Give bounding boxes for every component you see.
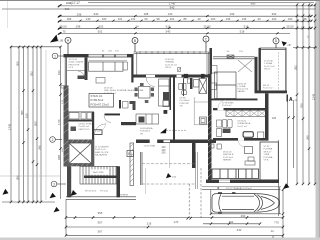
top dim line 2: [58, 5, 316, 7]
svg-text:1745: 1745: [7, 123, 11, 130]
svg-text:SP.OS 92.5: SP.OS 92.5: [85, 191, 97, 193]
svg-text:302: 302: [65, 7, 70, 11]
svg-text:NA ZAVRŠN: NA ZAVRŠN: [95, 154, 108, 157]
svg-text:06 05.06: 06 05.06: [104, 88, 113, 90]
svg-text:1:0B: 1:0B: [58, 40, 63, 43]
svg-text:10 01.06: 10 01.06: [69, 59, 78, 61]
svg-text:40: 40: [197, 17, 201, 21]
terrace edge below: [202, 186, 281, 188]
svg-text:25,50: 25,50: [204, 24, 211, 28]
dashed eave line lower: [142, 183, 196, 185]
ceiling diagonals bedroom: [238, 60, 252, 72]
terrace wall door gap1: [146, 75, 155, 78]
svg-text:60: 60: [144, 17, 148, 21]
radiator rects party wall: [217, 120, 222, 127]
main interior wall horizontal: [136, 140, 216, 144]
svg-text:180: 180: [272, 117, 277, 120]
east wall upper: [265, 93, 269, 140]
scan border top line: [0, 0, 320, 1]
svg-text:199: 199: [230, 12, 235, 16]
bed: [215, 72, 237, 99]
dashed line in top-right room: [278, 52, 280, 90]
svg-text:300: 300: [15, 175, 19, 180]
dining table on terrace: [139, 87, 151, 99]
top dim numbers row1: [65, 7, 277, 16]
stair text: [90, 169, 109, 174]
left band rotated numbers: [7, 61, 61, 180]
svg-text:P=9.08m2: P=9.08m2: [140, 131, 151, 133]
svg-text:940: 940: [170, 5, 175, 9]
sink counter dark outline: [243, 132, 253, 137]
bathtub: [69, 113, 79, 120]
left wall tiny texts: [62, 99, 64, 152]
door gap2 in wall: [164, 140, 171, 142]
svg-text:01 STUBIŠTE: 01 STUBIŠTE: [95, 146, 109, 149]
door arc stubiste 2: [97, 123, 106, 132]
svg-text:340: 340: [37, 145, 41, 150]
section arrow above bottom-left corner: [50, 193, 56, 199]
svg-text:540: 540: [166, 30, 171, 34]
svg-text:P=4.51 m2: P=4.51 m2: [79, 126, 90, 128]
svg-text:100: 100: [211, 17, 216, 21]
corridor wall vertical x119: [119, 100, 121, 108]
svg-text:135: 135: [242, 17, 247, 21]
svg-text:coa|17.17: coa|17.17: [66, 1, 80, 5]
grid bubble C: [203, 36, 209, 52]
top dim numbers row3: [60, 24, 294, 28]
svg-text:780: 780: [299, 103, 303, 108]
svg-text:12.05 STAN: 12.05 STAN: [144, 145, 156, 148]
section arrow top-left: [50, 35, 58, 43]
svg-text:ULAZ, ULAZNI: ULAZ, ULAZNI: [69, 61, 84, 64]
left band bottom line: [2, 201, 55, 203]
svg-text:460: 460: [241, 214, 246, 218]
svg-text:216: 216: [147, 222, 152, 226]
top-right room bottom wall: [255, 91, 288, 94]
svg-text:130: 130: [168, 12, 173, 16]
faint fold line: [7, 1, 9, 28]
elevator top wall: [64, 140, 94, 144]
top-right room texts: [263, 61, 275, 90]
dark block in wall1: [184, 74, 188, 78]
shower square: [258, 132, 264, 138]
terrace text: [165, 59, 178, 69]
kitchen text: [140, 127, 153, 135]
svg-text:TERASA: TERASA: [165, 61, 174, 64]
svg-text:KER PLOC: KER PLOC: [79, 129, 90, 131]
svg-text:85: 85: [183, 17, 187, 21]
svg-text:VB 05: VB 05: [165, 67, 172, 69]
boxed label B1: [127, 151, 134, 157]
svg-text:VB 02: VB 02: [264, 69, 271, 71]
door arc stubiste 1: [95, 124, 106, 135]
left exterior wall mid dark: [64, 86, 69, 140]
living room right unit text: [223, 152, 234, 162]
kitchen counter vertical: [159, 79, 170, 106]
storage room right: [260, 142, 278, 182]
svg-text:PARKE: PARKE: [238, 90, 246, 93]
svg-text:2: 2: [52, 138, 54, 142]
svg-text:SE 8.17: SE 8.17: [264, 151, 273, 153]
svg-text:585: 585: [20, 110, 24, 115]
car mirrors: [218, 192, 222, 194]
svg-text:P=KUHA: P=KUHA: [264, 156, 273, 159]
toilet small: [182, 90, 187, 94]
left grid bubble 2: [50, 137, 62, 143]
right dim vertical lines: [279, 5, 316, 217]
small box at wall: [211, 144, 215, 148]
svg-text:101: 101: [118, 17, 123, 21]
window x symbol: [227, 55, 234, 58]
door gap bath top: [218, 108, 224, 110]
washing machine dark: [223, 129, 231, 133]
bedroom bottom wall: [212, 99, 258, 101]
grid bubble D: [273, 38, 279, 48]
utility box: [200, 117, 207, 124]
bedroom text: [238, 84, 249, 94]
svg-text:VF 0: VF 0: [69, 67, 74, 69]
wall vertical x192 low: [192, 143, 196, 168]
wall x173: [173, 78, 175, 140]
entry room text: [69, 59, 84, 69]
wall y120: [69, 120, 95, 122]
info box STAN 1: [89, 94, 114, 108]
bottom-right dim vertical: [282, 189, 284, 238]
sofa under window: [89, 62, 124, 71]
entry door threshold dark: [78, 76, 87, 80]
svg-text:P=2.08m2: P=2.08m2: [180, 100, 191, 102]
dashed line bottom arrows: [187, 217, 192, 220]
svg-text:300: 300: [15, 61, 19, 66]
svg-text:1245: 1245: [311, 93, 315, 100]
elevator shaft with X: [69, 143, 92, 164]
svg-text:392: 392: [293, 65, 297, 70]
dark block in wall2: [201, 74, 205, 78]
hall door arc: [218, 100, 226, 108]
bathroom bottom wall: [213, 138, 269, 141]
terrace outer edge top: [134, 51, 211, 74]
svg-text:MZ 03: MZ 03: [263, 85, 270, 87]
svg-text:S=21.35 m2: S=21.35 m2: [165, 64, 178, 66]
section arrow right of D: [282, 41, 288, 46]
svg-text:298: 298: [76, 24, 81, 28]
scan border bottom: [0, 238, 320, 240]
washer sq: [217, 144, 221, 149]
party wall upper segment: [210, 48, 213, 74]
coffee table: [96, 78, 105, 84]
storage texts: [264, 146, 273, 162]
terrace wall door gap2: [177, 75, 182, 78]
bathroom text: [238, 121, 251, 128]
svg-text:15A: 15A: [172, 176, 176, 179]
svg-text:POS=97.23m2: POS=97.23m2: [91, 103, 110, 107]
svg-text:DNEVNI B.: DNEVNI B.: [223, 154, 234, 156]
wall between bath and hall: [92, 112, 94, 140]
wall x190 dark: [190, 78, 193, 89]
top dim numbers row2: [67, 17, 307, 21]
svg-text:3: 3: [53, 182, 55, 186]
top-right room right wall: [285, 48, 286, 93]
svg-text:nB: nB: [288, 44, 291, 47]
dark wall pieces x129-136: [130, 101, 136, 104]
svg-text:100: 100: [272, 17, 277, 21]
door arc below bar: [104, 115, 111, 122]
kitchen counter horizontal: [136, 114, 159, 124]
svg-text:75: 75: [62, 30, 66, 34]
svg-text:940: 940: [94, 12, 99, 16]
svg-text:03 WC KUPA: 03 WC KUPA: [79, 123, 93, 126]
left exterior wall upper: [65, 54, 66, 86]
light line to left edge: [0, 175, 60, 177]
grid bubble A: [65, 37, 71, 54]
svg-text:160: 160: [288, 17, 293, 21]
svg-text:98: 98: [156, 17, 160, 21]
wall between kitchen and bath: [170, 78, 172, 111]
stair rail dark: [84, 176, 118, 179]
left wall hatched low: [64, 140, 69, 167]
svg-text:50,50: 50,50: [60, 24, 67, 28]
svg-text:PARKET: PARKET: [223, 159, 232, 162]
terrace step line: [145, 168, 147, 194]
svg-text:16 B1.08: 16 B1.08: [165, 59, 175, 61]
svg-text:SPREM.: SPREM.: [120, 195, 129, 197]
stairs: [80, 166, 118, 184]
svg-text:502: 502: [98, 30, 103, 34]
entry door arc: [78, 71, 85, 78]
right unit bottom wall: [206, 180, 279, 184]
door gap: [238, 138, 244, 141]
section arrow far bottom-left: [3, 189, 9, 195]
svg-text:170: 170: [174, 220, 179, 224]
wc fixture dark: [71, 127, 77, 132]
svg-text:770: 770: [274, 220, 279, 224]
stairs right wall: [117, 166, 121, 197]
svg-text:980: 980: [251, 2, 256, 6]
table right unit: [245, 147, 253, 154]
svg-text:PO 0.00: PO 0.00: [100, 191, 109, 193]
svg-text:101: 101: [170, 17, 175, 21]
svg-text:131: 131: [131, 17, 136, 21]
terrace-main wall: [134, 75, 212, 78]
door gap in wall: [150, 140, 158, 144]
window sill line: [89, 60, 128, 62]
svg-text:160: 160: [24, 113, 28, 118]
right band arrow ticks: [287, 3, 316, 185]
bath room upper wall thin: [69, 111, 95, 113]
left band arrow ticks: [10, 46, 62, 204]
wall pier right of window: [127, 54, 134, 57]
top dim line 6: [58, 27, 312, 29]
svg-text:135: 135: [226, 17, 231, 21]
top dim line 7: [58, 33, 290, 35]
wall living/terrace: [131, 54, 133, 83]
svg-text:196: 196: [57, 70, 61, 75]
svg-text:PROSTOR: PROSTOR: [69, 64, 80, 66]
bathroom top wall: [213, 108, 269, 110]
svg-text:188: 188: [144, 12, 149, 16]
top dim line 1: [88, 2, 314, 4]
top dim line 4: [58, 15, 312, 17]
svg-text:P=12.2 m2: P=12.2 m2: [95, 149, 106, 151]
fridge dark: [163, 92, 169, 100]
bottom dim lines: [66, 199, 283, 236]
elevator right wall: [92, 140, 95, 167]
toilet+bidet: [223, 120, 227, 128]
chairs around table: [135, 83, 155, 103]
svg-text:1.98B: 1.98B: [264, 154, 270, 156]
top dim numbers row4: [62, 30, 244, 34]
bottom band ticks: [65, 188, 284, 236]
wall y122 x121-136: [121, 122, 136, 125]
wardrobe row with X cells: [226, 110, 266, 116]
right connector line: [293, 47, 317, 49]
svg-text:KAM. PLOČE: KAM. PLOČE: [95, 151, 109, 154]
section arrow bottom-right of building: [283, 183, 289, 189]
hatched wall below living: [130, 143, 134, 186]
svg-text:40: 40: [257, 17, 261, 21]
svg-text:100: 100: [102, 17, 107, 21]
dashed eave line upper: [142, 163, 196, 165]
section arrow bottom-left inside: [71, 190, 78, 196]
svg-text:05 WC: 05 WC: [180, 98, 187, 100]
car: [212, 194, 280, 213]
svg-text:590: 590: [162, 152, 167, 155]
svg-text:02 03.08: 02 03.08: [264, 61, 273, 63]
hall text STUBISTE: [95, 146, 109, 157]
tv stand: [248, 157, 254, 161]
svg-text:P=3.9 m2: P=3.9 m2: [222, 105, 232, 107]
svg-text:ST 02: ST 02: [264, 146, 271, 148]
window gap bottom wall: [219, 180, 230, 184]
svg-text:516: 516: [166, 24, 171, 28]
svg-text:955: 955: [98, 211, 103, 215]
svg-text:P=1.5 m2: P=1.5 m2: [263, 88, 273, 90]
stacked numbers: [162, 146, 167, 155]
svg-text:518: 518: [240, 30, 245, 34]
bath door arc: [238, 140, 245, 147]
svg-text:502: 502: [99, 24, 104, 28]
right band upper small texts: [302, 26, 310, 38]
svg-text:PVB KUP: PVB KUP: [180, 103, 190, 105]
svg-text:P=11.2 m2: P=11.2 m2: [264, 66, 275, 68]
svg-text:14: 14: [270, 229, 274, 233]
right band rotated numbers: [272, 65, 315, 140]
living room text: [104, 88, 144, 95]
parking outline: [202, 187, 281, 214]
radiator mark on left wall: [61, 86, 64, 89]
wc fixtures: [81, 113, 86, 120]
section arrow mid B: [160, 128, 167, 133]
svg-text:16x17,5/28: 16x17,5/28: [93, 172, 105, 174]
nightstand 1: [211, 66, 217, 74]
top wall solid left part: [64, 54, 89, 57]
scan border right: [316, 0, 320, 240]
svg-text:505: 505: [33, 121, 37, 126]
svg-text:L.SOBA: L.SOBA: [264, 62, 272, 65]
small rect shaft left: [194, 80, 200, 88]
svg-text:1.50: 1.50: [57, 119, 61, 125]
top-right room left wall: [259, 48, 261, 93]
svg-text:P=89.5m2: P=89.5m2: [91, 98, 104, 102]
bath text: [180, 98, 191, 108]
svg-text:298: 298: [77, 12, 82, 16]
kitchen sink dark: [139, 117, 145, 123]
grid bubble B: [132, 38, 138, 53]
entry divider wall: [85, 58, 88, 81]
section arrow terrace: [166, 173, 171, 178]
side table: [123, 62, 127, 70]
svg-text:140: 140: [86, 17, 91, 21]
left grid bubble 3: [51, 181, 66, 187]
svg-text:VF B: VF B: [264, 160, 269, 162]
svg-text:04 KUHINJA: 04 KUHINJA: [140, 127, 153, 130]
svg-text:518: 518: [244, 24, 249, 28]
svg-text:230: 230: [237, 228, 242, 232]
entry room wall horizontal: [67, 70, 85, 72]
svg-text:567: 567: [98, 229, 103, 233]
wc fixtures right of wall: [123, 102, 129, 109]
top band tick marks: [59, 4, 313, 34]
faint dim line x46: [45, 50, 47, 200]
bath sink sq: [187, 79, 191, 83]
window dim texts above building: [102, 51, 244, 54]
svg-text:07 HODNIK: 07 HODNIK: [222, 103, 234, 105]
wall bar below info box: [105, 114, 121, 116]
svg-text:25,50: 25,50: [287, 24, 294, 28]
left grid bubble 1: [52, 53, 63, 59]
svg-text:340: 340: [305, 135, 309, 140]
bottom dim numbers: [98, 211, 280, 239]
left connector line: [10, 46, 61, 48]
svg-text:94B: 94B: [57, 155, 61, 160]
svg-text:1: 1: [54, 54, 56, 58]
svg-text:592: 592: [29, 71, 33, 76]
top center numbers: [169, 2, 256, 10]
small utility room lines: [194, 97, 208, 125]
terrace boundary verticals near parking: [189, 152, 201, 218]
bath boiler sqs: [179, 83, 182, 89]
svg-text:186: 186: [67, 17, 72, 21]
svg-text:24: 24: [135, 24, 139, 28]
svg-text:392: 392: [272, 12, 277, 16]
svg-text:957: 957: [98, 221, 103, 225]
svg-text:P=TERA: P=TERA: [264, 148, 273, 151]
appliance 2: [163, 101, 169, 107]
hall text: [222, 103, 234, 108]
terrace door mark: [178, 68, 181, 72]
svg-text:P=4.7 m2: P=4.7 m2: [238, 126, 248, 128]
building left wall bottom: [67, 166, 71, 197]
wall bedroom/topright room: [255, 57, 258, 93]
left dim vertical lines: [11, 47, 61, 202]
shaft with X: [199, 79, 207, 94]
svg-text:462: 462: [229, 220, 234, 224]
dark stove sq: [164, 110, 168, 114]
sofa right unit: [212, 169, 259, 179]
wall step x140 vertical: [141, 152, 143, 185]
wc counter rect: [93, 130, 103, 135]
bedroom top window wall: [213, 57, 255, 59]
section arrow near bubble3: [54, 207, 60, 212]
living window band: [89, 54, 128, 57]
corridor line x169: [169, 143, 171, 168]
left terminus ticks: [58, 5, 61, 35]
top dim line 3 gray: [2, 8, 316, 10]
svg-text:P=21.5m2: P=21.5m2: [223, 157, 234, 159]
terrace door swing: [146, 78, 155, 87]
bottom edge of stair block: [66, 197, 136, 200]
elevator bottom wall: [64, 164, 94, 167]
